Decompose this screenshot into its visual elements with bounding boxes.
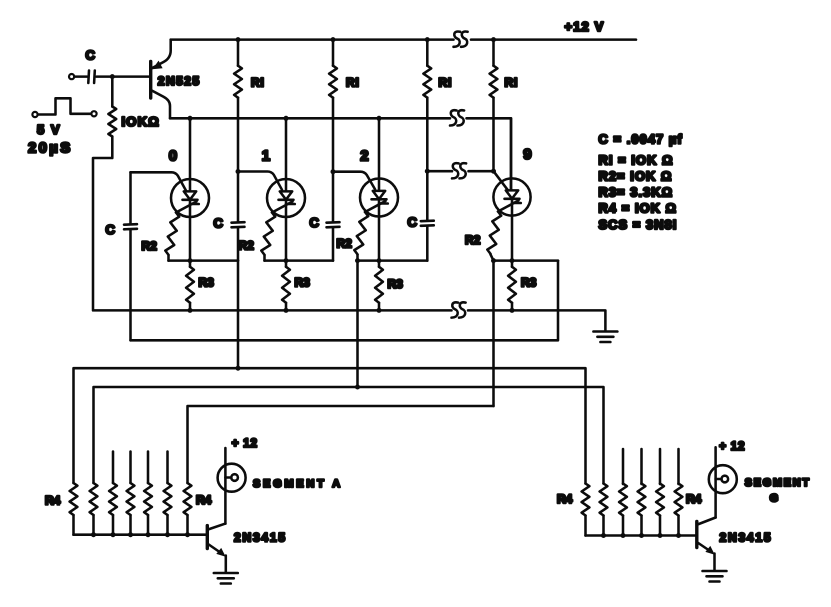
ground rail (R3 common) — [93, 309, 452, 312]
svg-text:1: 1 — [262, 147, 270, 164]
svg-text:R4: R4 — [686, 492, 702, 506]
svg-text:R2: R2 — [142, 239, 158, 253]
stub wire input 6 — [166, 452, 169, 484]
svg-text:C: C — [106, 222, 116, 237]
node R2 stage 2 / output — [355, 258, 360, 263]
capacitor C (stage 0 to 1) — [232, 172, 245, 261]
wire C to base node — [97, 75, 150, 78]
node R3 stage 2 / ground rail — [377, 308, 382, 313]
+12V top rail — [171, 38, 454, 41]
break (ground rail) — [452, 302, 466, 317]
svg-text:R4: R4 — [557, 492, 573, 506]
resistor R3 (stage 2) — [375, 261, 383, 311]
wire cathode row stage 9 — [494, 259, 559, 262]
svg-text:SEGMENT: SEGMENT — [745, 477, 811, 489]
svg-text:2N525: 2N525 — [158, 74, 201, 88]
svg-text:0: 0 — [169, 147, 177, 164]
resistor R4 (left bank 4) — [127, 483, 135, 535]
svg-text:+12 V: +12 V — [565, 19, 605, 34]
resistor R1 (stage 9 column) — [490, 40, 498, 172]
wire cathode row stage 0 — [169, 259, 239, 262]
pulse source right terminal — [91, 111, 96, 116]
stub wire input 6r — [677, 449, 680, 484]
wire feedback row (9 to 0) — [131, 261, 559, 341]
transistor Q3 2N3415 (segment G) — [697, 518, 716, 571]
wire bus row C — [188, 406, 494, 483]
resistor R4 (right bank 3) — [619, 484, 627, 536]
node base rail dots (left) — [91, 532, 96, 537]
wire gate bus to stage 9 — [427, 170, 452, 173]
wire bus row A — [74, 368, 586, 483]
svg-text:RI = IOK Ω: RI = IOK Ω — [599, 153, 674, 168]
svg-text:R2: R2 — [465, 233, 481, 247]
capacitor C (input coupling) — [88, 71, 95, 84]
node bus B / stage 2 output — [355, 385, 360, 390]
svg-text:RI: RI — [505, 76, 519, 90]
collector rail (2nd rail) — [170, 117, 450, 120]
node IN: input terminal — [69, 74, 74, 79]
svg-text:R3: R3 — [199, 276, 215, 290]
resistor R4 (right bank 5) — [656, 484, 664, 536]
svg-text:C: C — [408, 215, 418, 230]
wire gate stage 0 — [131, 172, 187, 190]
svg-text:R2= IOK Ω: R2= IOK Ω — [599, 169, 673, 184]
node cathode stage 2 — [377, 258, 382, 263]
wire cathode row stage 2 — [358, 259, 428, 262]
svg-text:+ 12: + 12 — [232, 438, 258, 450]
svg-text:RI: RI — [439, 76, 453, 90]
resistor R1 (stage 2-9 column) — [423, 40, 431, 172]
resistor R4 (left bank 3) — [109, 483, 117, 535]
resistor R4 (right bank 1) — [582, 484, 590, 536]
node base rail dots (right) — [601, 533, 606, 538]
svg-text:R3= 3.3KΩ: R3= 3.3KΩ — [599, 185, 674, 200]
svg-text:R2: R2 — [337, 237, 353, 251]
SCS U2 3N81 — [360, 118, 398, 260]
wire output stage 0 down — [237, 261, 240, 369]
resistor 10KΩ (base bias) — [93, 79, 116, 309]
node gate stage 1 — [236, 169, 241, 174]
ground (right driver) — [703, 571, 727, 582]
break (gate wire) — [452, 163, 466, 178]
node R3 stage 0 / ground rail — [188, 308, 193, 313]
resistor R4 (right bank 4) — [638, 484, 646, 536]
svg-text:R4: R4 — [45, 494, 61, 508]
SCS U1 3N81 — [267, 118, 305, 260]
resistor R4 (right bank 2) — [600, 484, 608, 536]
stub wire input 3 — [112, 452, 115, 484]
capacitor C (stage 9 to 0 feedback) — [124, 172, 137, 340]
pulse source left terminal — [32, 112, 37, 117]
svg-text:5 V: 5 V — [37, 122, 61, 137]
node cathode stage 9 — [510, 258, 515, 263]
resistor R4 (left bank 2) — [90, 483, 98, 535]
svg-text:R4 = IOK Ω: R4 = IOK Ω — [599, 201, 678, 216]
resistor R2 (stage 9) — [487, 211, 502, 261]
node top rail / R1d — [491, 37, 496, 42]
node cathode stage 1 — [284, 258, 289, 263]
node gate stage 2 — [331, 169, 336, 174]
node anode stage 2 — [377, 116, 382, 121]
resistor R4 (left bank 7) — [184, 483, 192, 535]
svg-text:R3: R3 — [295, 276, 311, 290]
resistor R4 (right bank 6) — [675, 484, 683, 536]
svg-text:C: C — [310, 215, 320, 230]
wire gate stage 1 — [238, 172, 282, 190]
node top rail / R1c — [425, 37, 430, 42]
svg-text:R4: R4 — [196, 493, 212, 507]
node R3 stage 1 / ground rail — [284, 308, 289, 313]
break (2nd rail) — [450, 110, 464, 125]
SCS U0 3N81 — [171, 118, 209, 260]
wire bus row B — [94, 387, 604, 484]
base rail (left driver) — [74, 533, 206, 536]
node R3 stage 9 / ground rail — [510, 308, 515, 313]
wire gate stage 2 — [333, 172, 375, 190]
node bus A / stage 0 output — [236, 366, 241, 371]
stub wire input 4r — [640, 449, 643, 484]
svg-text:C = .0047 µf: C = .0047 µf — [599, 132, 683, 147]
resistor R2 (stage 1) — [261, 212, 276, 261]
base rail (right driver) — [586, 534, 696, 537]
SCS U9 3N81 — [493, 118, 530, 260]
wire input terminal to C — [74, 75, 87, 78]
node cathode stage 0 — [188, 258, 193, 263]
stub wire input 5 — [147, 452, 150, 484]
resistor R3 (stage 9) — [508, 261, 516, 311]
resistor R4 (left bank 6) — [164, 483, 172, 535]
svg-text:R3: R3 — [388, 277, 404, 291]
node base junction — [110, 74, 115, 79]
resistor R2 (stage 2) — [354, 211, 369, 260]
break (top rail) — [454, 32, 468, 47]
svg-text:SEGMENT A: SEGMENT A — [253, 478, 343, 490]
resistor R4 (left bank 1) — [70, 483, 78, 535]
resistor R4 (left bank 5) — [144, 483, 152, 535]
transistor Q2 2N3415 (segment A) — [207, 524, 226, 573]
svg-text:R2: R2 — [239, 239, 255, 253]
svg-text:2N3415: 2N3415 — [720, 531, 773, 545]
node anode stage 1 — [284, 116, 289, 121]
node R2 stage 9 / output — [491, 258, 496, 263]
svg-text:SCS = 3N8I: SCS = 3N8I — [599, 217, 678, 232]
resistor R3 (stage 1) — [282, 261, 290, 311]
capacitor C (stage 1 to 2) — [327, 172, 340, 261]
pulse waveform symbol — [38, 98, 91, 114]
node top rail / R1a — [236, 37, 241, 42]
svg-text:2N3415: 2N3415 — [234, 531, 287, 545]
resistor R1 (stage 1-2 column) — [329, 40, 337, 172]
stub wire input 5r — [659, 449, 662, 484]
svg-text:RI: RI — [346, 76, 360, 90]
svg-text:20µS: 20µS — [28, 140, 73, 157]
svg-text:R3: R3 — [521, 276, 537, 290]
stub wire input 4 — [129, 452, 132, 484]
svg-text:C: C — [214, 216, 224, 231]
resistor R2 (stage 0) — [165, 212, 180, 261]
lamp SEGMENT G — [709, 447, 737, 517]
svg-text:RI: RI — [251, 76, 265, 90]
lamp SEGMENT A — [218, 448, 246, 524]
node anode stage 0 — [188, 116, 193, 121]
node gate stage 9 — [491, 169, 496, 174]
wire gate stage 9 — [494, 171, 509, 190]
svg-text:IOKΩ: IOKΩ — [122, 114, 160, 129]
svg-text:9: 9 — [523, 146, 531, 163]
resistor R1 (stage 0-1 column) — [234, 40, 242, 172]
ground (left driver) — [214, 573, 238, 584]
stub wire input 3r — [622, 449, 625, 484]
svg-text:+ 12: + 12 — [719, 441, 745, 453]
svg-text:2: 2 — [360, 147, 368, 164]
wire output stage 9 down — [492, 261, 495, 406]
node gate cap column c — [425, 169, 430, 174]
node top rail / R1b — [331, 37, 336, 42]
capacitor C (stage 2 to 9) — [421, 171, 434, 260]
svg-text:G: G — [770, 492, 779, 504]
ground (right) — [593, 332, 617, 343]
wire output stage 2 down — [356, 261, 359, 387]
wire cathode row stage 1 — [265, 259, 334, 262]
transistor Q1 2N525 — [151, 40, 171, 119]
svg-text:C: C — [86, 48, 96, 63]
resistor R3 (stage 0) — [186, 261, 194, 311]
